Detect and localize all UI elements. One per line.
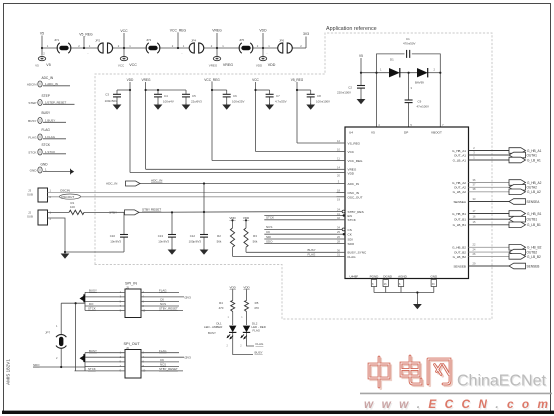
svg-text:JP6: JP6 xyxy=(279,39,285,43)
svg-text:VCC: VCC xyxy=(129,63,137,67)
svg-text:FLAG: FLAG xyxy=(42,128,51,132)
application reference dashed boundary xyxy=(95,33,492,319)
svg-text:G_LB_A1: G_LB_A1 xyxy=(453,158,467,162)
svg-text:AMIS 182V1: AMIS 182V1 xyxy=(6,359,11,385)
wire J2 pin1 to R1 xyxy=(48,211,70,213)
svg-text:VREG: VREG xyxy=(141,78,151,82)
flag G_HB_A2 xyxy=(509,180,526,186)
wire DL1 cathode to BUSY xyxy=(233,332,253,354)
svg-text:3V3: 3V3 xyxy=(303,32,309,36)
resistor R2 56k xyxy=(232,220,234,228)
wire VDD vertical xyxy=(129,82,131,173)
svg-text:C5: C5 xyxy=(192,94,196,98)
wire G_HB_B2 xyxy=(469,246,510,248)
svg-text:VBOOT: VBOOT xyxy=(431,131,442,135)
wire JP7 bottom xyxy=(60,349,62,367)
testpoint FLAG xyxy=(38,134,42,140)
svg-text:LED - AMBER: LED - AMBER xyxy=(204,325,222,329)
svg-text:BUSY: BUSY xyxy=(89,349,97,353)
wire JP6 to 3V3 xyxy=(292,47,306,49)
svg-text:22u/6V3: 22u/6V3 xyxy=(191,100,202,104)
wire ADC_IN flag to IC ADC_IN xyxy=(140,183,337,185)
svg-text:C8: C8 xyxy=(317,94,321,98)
IC bottom pin boxes xyxy=(371,280,436,287)
wire JP5 to JP6 xyxy=(252,47,278,49)
svg-text:G_HB_B2: G_HB_B2 xyxy=(527,246,542,250)
svg-text:CS: CS xyxy=(348,228,352,232)
wire OUTB1 xyxy=(469,218,510,220)
svg-text:CK: CK xyxy=(160,358,164,362)
node 3V3 stub xyxy=(305,37,307,49)
flag OUTB1 xyxy=(509,216,526,222)
svg-text:100n/50V: 100n/50V xyxy=(105,99,117,103)
svg-text:G_HB_A1: G_HB_A1 xyxy=(452,149,466,153)
svg-text:JP1: JP1 xyxy=(54,38,60,42)
flag OUTA1 xyxy=(509,152,526,158)
capacitor C12 xyxy=(200,235,208,238)
svg-text:OUT_B1: OUT_B1 xyxy=(454,218,466,222)
svg-text:VDD: VDD xyxy=(230,285,237,289)
svg-text:FLAG: FLAG xyxy=(28,135,37,139)
flag OUTB2 xyxy=(509,249,526,255)
svg-text:C4: C4 xyxy=(164,94,168,98)
jumper JP6 xyxy=(278,43,293,53)
tiny pin marks xyxy=(227,316,244,348)
svg-text:1/STEP_RESET: 1/STEP_RESET xyxy=(45,100,66,104)
svg-text:V5_REG: V5_REG xyxy=(79,32,93,36)
flag G_HB_A1 xyxy=(509,148,526,154)
wire SDO stub xyxy=(264,243,336,245)
svg-text:VCC: VCC xyxy=(348,150,355,154)
left wires SPI_OUT xyxy=(85,352,125,354)
testpoint GND xyxy=(38,167,42,173)
svg-text:1 BUSY: 1 BUSY xyxy=(45,118,55,122)
wire JP3 to JP4 xyxy=(159,47,190,49)
svg-text:STCK: STCK xyxy=(348,218,357,222)
svg-text:56k: 56k xyxy=(253,240,258,244)
op-amp U4 main driver IC xyxy=(345,127,469,279)
svg-text:ADC_IN: ADC_IN xyxy=(106,182,117,186)
wire SENSEB xyxy=(469,265,510,267)
capacitor C7 xyxy=(266,94,274,97)
SPI_OUT pin numbers xyxy=(120,352,146,373)
svg-text:100n/25V: 100n/25V xyxy=(232,100,244,104)
wire JP2 to JP3 xyxy=(112,47,147,49)
svg-text:GND: GND xyxy=(30,168,38,172)
svg-text:ADC_IN: ADC_IN xyxy=(151,179,162,183)
jumper JP1 xyxy=(57,43,71,53)
SPI_IN pin numbers xyxy=(120,291,146,312)
wire diode cathode to VBOOT xyxy=(428,72,441,74)
svg-text:STEP: STEP xyxy=(42,94,50,98)
svg-text:FLAG: FLAG xyxy=(348,255,357,259)
capacitor C2 220n/100V xyxy=(357,86,365,89)
IC right pin numbers xyxy=(473,146,476,266)
svg-text:STCK: STCK xyxy=(88,367,96,371)
JUMPERROW xyxy=(42,33,306,57)
svg-text:ChinaECNet: ChinaECNet xyxy=(457,372,546,389)
wire JP1 to JP2 xyxy=(70,47,98,49)
svg-text:VCC: VCC xyxy=(118,64,125,68)
wire VREG vertical xyxy=(145,82,147,169)
wire JP4 to JP5 xyxy=(204,47,241,49)
svg-text:STCK: STCK xyxy=(266,216,274,220)
svg-text:G_HB_B1: G_HB_B1 xyxy=(452,212,466,216)
capacitor C1 470n/50V (horizontal) xyxy=(407,50,410,58)
left wires SPI_IN xyxy=(85,291,125,293)
svg-text:SDO: SDO xyxy=(348,242,355,246)
svg-text:DGND: DGND xyxy=(383,274,393,278)
wire CK stub xyxy=(264,233,336,235)
wire SDO net xyxy=(33,366,85,368)
flag SENSEB xyxy=(509,263,526,269)
wire VCC to IC VCC xyxy=(256,151,337,153)
flag G_LB_B1 xyxy=(509,222,526,228)
svg-text:R5: R5 xyxy=(255,301,259,305)
capacitor C4 xyxy=(154,94,162,97)
capacitor C13 xyxy=(168,235,176,238)
svg-text:V5_REG: V5_REG xyxy=(291,78,304,82)
IC top pin numbers xyxy=(378,123,444,127)
svg-text:SENSEB: SENSEB xyxy=(453,264,466,268)
flag G_LB_A1 xyxy=(509,157,526,163)
svg-text:STBY_RESET: STBY_RESET xyxy=(159,307,178,311)
wire C7 branch xyxy=(256,89,270,91)
flag G_HB_B2 xyxy=(509,245,526,251)
svg-text:VDD: VDD xyxy=(268,63,276,67)
svg-text:V5: V5 xyxy=(371,131,375,135)
svg-text:BUSY: BUSY xyxy=(255,351,263,355)
wire J2 pin2 down to ground xyxy=(48,218,125,252)
wire G_HB_A1 xyxy=(469,150,510,152)
svg-text:ADC_IN: ADC_IN xyxy=(42,76,54,80)
svg-text:OSC_OUT: OSC_OUT xyxy=(348,195,363,199)
svg-text:-: - xyxy=(88,53,89,56)
svg-text:C9: C9 xyxy=(418,100,422,104)
wire R3 to IC BUSY_SYNC xyxy=(246,251,337,253)
wire C8 branch xyxy=(297,89,311,91)
svg-text:G_HB_B2: G_HB_B2 xyxy=(452,246,466,250)
wire V5 pin vertical xyxy=(376,73,378,127)
capacitor C5 xyxy=(182,94,190,97)
svg-text:BUSY: BUSY xyxy=(208,331,216,335)
svg-text:VREG: VREG xyxy=(212,29,222,33)
svg-text:4.7n/25V: 4.7n/25V xyxy=(275,100,287,104)
testpoint STEP xyxy=(38,100,42,106)
node V5_REG stub xyxy=(83,37,85,49)
svg-text:SDI: SDI xyxy=(348,237,353,241)
svg-text:1 FLAG: 1 FLAG xyxy=(45,135,56,139)
flag G_LB_B2 xyxy=(509,254,526,260)
jumper JP5 xyxy=(239,43,253,53)
net label OSCOUT xyxy=(60,194,81,199)
junction dots jumper row xyxy=(41,47,264,49)
svg-text:VCC: VCC xyxy=(120,29,128,33)
capacitor C3 xyxy=(113,94,121,97)
power symbol VDD xyxy=(259,57,266,61)
MIDWIRES xyxy=(112,143,337,256)
wire C4 C5 branch xyxy=(146,89,186,91)
svg-text:NCS: NCS xyxy=(266,225,272,229)
svg-text:OUTB1: OUTB1 xyxy=(527,218,538,222)
resistor R5 470 xyxy=(245,301,249,312)
wire OUTA1 xyxy=(469,154,510,156)
wire VCC_REG to IC VCC_REG xyxy=(212,160,337,162)
svg-text:JP5: JP5 xyxy=(239,38,245,42)
svg-text:470n/50V: 470n/50V xyxy=(403,41,415,45)
svg-text:V5: V5 xyxy=(46,63,50,67)
svg-text:ADC_IN: ADC_IN xyxy=(348,182,359,186)
wire net V5 to JP1 xyxy=(42,47,58,49)
wire VREG to IC VREG xyxy=(146,168,337,170)
svg-text:FLAG: FLAG xyxy=(308,252,317,256)
svg-text:100: 100 xyxy=(70,205,75,209)
svg-text:JP3: JP3 xyxy=(146,38,152,42)
wire C6 branch xyxy=(212,89,227,91)
svg-text:G_LB_B2: G_LB_B2 xyxy=(527,255,541,259)
testpoint ADCIN xyxy=(38,81,42,87)
svg-text:OSCOUT: OSCOUT xyxy=(61,195,74,199)
junction dots mid xyxy=(171,211,173,213)
svg-text:V5: V5 xyxy=(35,64,39,68)
svg-text:C7: C7 xyxy=(276,94,280,98)
wire OSCOUT J3 pin2 to IC OSC_OUT xyxy=(48,196,337,198)
svg-text:VDD: VDD xyxy=(127,78,134,82)
wire EN stub xyxy=(264,215,336,217)
svg-text:NCS: NCS xyxy=(160,363,166,367)
svg-text:G_LB_B1: G_LB_B1 xyxy=(527,223,541,227)
svg-text:VREG: VREG xyxy=(209,64,218,68)
svg-text:SENSEA: SENSEA xyxy=(527,200,541,204)
capacitor C8 xyxy=(307,94,315,97)
jumper JP4 xyxy=(189,43,204,53)
RIGHTFLAGS xyxy=(469,151,510,267)
svg-text:G_HB_A2: G_HB_A2 xyxy=(527,181,542,185)
wire VCC vertical xyxy=(255,82,257,152)
testpoint BUSY xyxy=(38,118,42,124)
cap bottom stems xyxy=(116,97,118,103)
svg-text:JP7: JP7 xyxy=(45,331,51,335)
svg-text:BUSY: BUSY xyxy=(42,111,52,115)
svg-text:C13: C13 xyxy=(158,234,164,238)
svg-text:C1: C1 xyxy=(406,37,410,41)
jumper JP7 vertical xyxy=(33,303,85,371)
svg-text:R4: R4 xyxy=(219,301,223,305)
svg-text:PGND: PGND xyxy=(370,274,380,278)
svg-text:{3V3: {3V3 xyxy=(185,295,192,299)
svg-text:G_HB_A1: G_HB_A1 xyxy=(527,149,542,153)
svg-text:STBY: STBY xyxy=(109,211,117,215)
wire R2 to IC FLAG xyxy=(233,255,337,257)
svg-text:OSCIN: OSCIN xyxy=(60,189,70,193)
svg-text:JP2: JP2 xyxy=(95,39,101,43)
svg-text:C10: C10 xyxy=(110,234,116,238)
resistor R3 56k xyxy=(245,220,247,228)
flag OUTA2 xyxy=(509,185,526,191)
wire VCC_REG vertical xyxy=(211,82,213,161)
svg-text:OSC_IN: OSC_IN xyxy=(348,191,360,195)
connector J3 xyxy=(38,188,48,202)
svg-text:STBY_RESET: STBY_RESET xyxy=(159,367,178,371)
svg-text:VCC_REG: VCC_REG xyxy=(348,159,364,163)
WATERMARK xyxy=(360,356,552,412)
svg-text:SDO: SDO xyxy=(266,239,273,243)
svg-text:U4: U4 xyxy=(349,131,353,135)
net labels SPI stubs xyxy=(266,216,316,257)
wire G_LB_A2 xyxy=(469,191,510,193)
ground bus under IC xyxy=(374,279,434,304)
IC left pin stubs xyxy=(337,143,346,256)
IC left pin labels xyxy=(348,141,368,258)
wire OUTB2 xyxy=(469,251,510,253)
svg-text:JP4: JP4 xyxy=(191,39,197,43)
node VREG stub xyxy=(216,33,218,57)
wire VBOOT vertical xyxy=(439,73,441,127)
svg-text:DO: DO xyxy=(89,302,94,306)
svg-text:G_LB_A2: G_LB_A2 xyxy=(453,190,467,194)
wire G_LB_B1 xyxy=(469,224,510,226)
capacitor C10 xyxy=(120,235,128,238)
svg-text:G_HB_A2: G_HB_A2 xyxy=(452,181,466,185)
watermark divider line xyxy=(360,392,552,394)
svg-text:C6: C6 xyxy=(233,94,237,98)
wire DL2 cathode to FLAG xyxy=(247,332,255,346)
ground IC xyxy=(413,303,422,310)
svg-text:FLAG: FLAG xyxy=(256,342,265,346)
wire SENSEA xyxy=(469,201,510,203)
svg-text:NCS: NCS xyxy=(160,302,166,306)
wire DO net to SPI_IN xyxy=(61,302,85,304)
svg-text:STCK: STCK xyxy=(42,143,51,147)
svg-text:G_LB_A1: G_LB_A1 xyxy=(527,158,541,162)
svg-text:1 ADC_IN: 1 ADC_IN xyxy=(45,82,58,86)
svg-text:OUTA1: OUTA1 xyxy=(527,153,538,157)
svg-text:VDD: VDD xyxy=(259,29,267,33)
svg-text:CK: CK xyxy=(266,230,270,234)
capacitor C9 47n/100V xyxy=(405,100,413,103)
svg-text:C12: C12 xyxy=(190,234,196,238)
LED DL2 red FLAG xyxy=(243,326,250,333)
node VCC_REG stub xyxy=(177,33,179,48)
svg-text:C3: C3 xyxy=(105,93,109,97)
svg-text:{3V3: {3V3 xyxy=(185,356,192,360)
svg-text:100n/100V: 100n/100V xyxy=(316,100,330,104)
svg-text:D1: D1 xyxy=(390,58,394,62)
ribbon arrow SPI_IN xyxy=(80,294,85,302)
svg-text:G_LB_B2: G_LB_B2 xyxy=(453,255,467,259)
svg-text:R3: R3 xyxy=(253,234,257,238)
svg-text:Application reference: Application reference xyxy=(326,26,377,32)
junction dots cap row xyxy=(129,89,298,91)
svg-text:DP: DP xyxy=(404,131,408,135)
svg-text:BUSY: BUSY xyxy=(89,289,97,293)
active-low bubbles xyxy=(342,210,345,213)
svg-text:GND: GND xyxy=(41,162,49,166)
svg-text:STBY RESET: STBY RESET xyxy=(142,207,161,211)
right wires SPI_OUT xyxy=(141,352,179,354)
svg-text:FLAG: FLAG xyxy=(159,349,167,353)
flag SENSEA xyxy=(509,199,526,205)
wire NCS stub xyxy=(264,228,336,230)
wire OUTA2 xyxy=(469,186,510,188)
wire OSCIN J3 pin1 to IC OSC_IN xyxy=(48,192,337,194)
svg-text:VCC: VCC xyxy=(252,78,259,82)
svg-text:470: 470 xyxy=(254,306,259,310)
svg-text:STEP: STEP xyxy=(28,101,36,105)
pin numbers jumper row xyxy=(43,44,302,56)
svg-text:G_LB_B1: G_LB_B1 xyxy=(453,223,467,227)
wire G_HB_B1 xyxy=(469,213,510,215)
svg-text:VCC_REG: VCC_REG xyxy=(170,29,187,33)
node V5 stub xyxy=(41,36,43,56)
svg-text:47n/100V: 47n/100V xyxy=(417,105,429,109)
svg-text:VDD: VDD xyxy=(243,285,250,289)
connector J2 xyxy=(38,210,48,225)
wire C3 branch xyxy=(117,89,130,91)
wire G_LB_A1 xyxy=(469,159,510,161)
wire G_HB_A2 xyxy=(469,182,510,184)
svg-text:OUT_A1: OUT_A1 xyxy=(454,153,466,157)
wire SDI stub xyxy=(264,238,336,240)
junction dots diode circuit xyxy=(360,72,362,74)
svg-text:SDI: SDI xyxy=(266,235,271,239)
svg-text:220n/100V: 220n/100V xyxy=(337,91,351,95)
svg-text:VDD: VDD xyxy=(256,64,263,68)
net labels top row xyxy=(40,29,309,37)
svg-text:FLAG: FLAG xyxy=(253,328,261,332)
jumper JP2 xyxy=(98,43,113,53)
svg-text:56k: 56k xyxy=(217,240,222,244)
svg-text:OUT_A2: OUT_A2 xyxy=(454,186,466,190)
wire V5_REG vertical xyxy=(296,82,298,143)
diode D1b BAV99 xyxy=(417,68,428,77)
svg-text:CK: CK xyxy=(160,298,164,302)
wire DO branch down to SPI_OUT xyxy=(75,303,77,371)
watermark char dian xyxy=(401,356,421,384)
svg-text:R2: R2 xyxy=(217,234,221,238)
flag G_LB_A2 xyxy=(509,189,526,195)
testpoint STCK xyxy=(38,149,42,155)
wire C1 loop right xyxy=(412,54,441,73)
resistor R4 470 xyxy=(231,301,235,312)
wire C2 bottom stem xyxy=(360,88,362,97)
wire V5 to diode anode xyxy=(361,72,389,74)
svg-text:BAV99: BAV99 xyxy=(415,81,424,85)
svg-text:U448F: U448F xyxy=(350,274,359,278)
right wires SPI_IN xyxy=(141,291,179,293)
svg-text:BUSY: BUSY xyxy=(28,119,36,123)
svg-text:100p/6V3: 100p/6V3 xyxy=(189,240,202,244)
wire R1 to STBY net xyxy=(84,211,112,213)
gnd arrow terminal xyxy=(70,169,72,175)
svg-text:V5: V5 xyxy=(40,32,44,36)
svg-text:SENSEB: SENSEB xyxy=(527,264,540,268)
wire C12 vertical xyxy=(203,184,205,235)
wire STBY net to IC STBY_RES xyxy=(112,211,337,214)
ribbon arrow SPI_OUT xyxy=(80,354,85,362)
watermark char zhong xyxy=(369,357,389,387)
svg-text:GND: GND xyxy=(430,274,438,278)
svg-text:FLAG: FLAG xyxy=(159,289,167,293)
svg-text:470: 470 xyxy=(219,306,224,310)
svg-text:VS_REG: VS_REG xyxy=(348,141,361,145)
svg-text:G_LB_A2: G_LB_A2 xyxy=(527,190,541,194)
power symbol VCC xyxy=(120,57,127,61)
LED DL1 amber BUSY xyxy=(229,326,236,333)
CAPROW xyxy=(127,78,304,82)
wire G_LB_B2 xyxy=(469,255,510,257)
power symbol V5 xyxy=(38,57,45,61)
